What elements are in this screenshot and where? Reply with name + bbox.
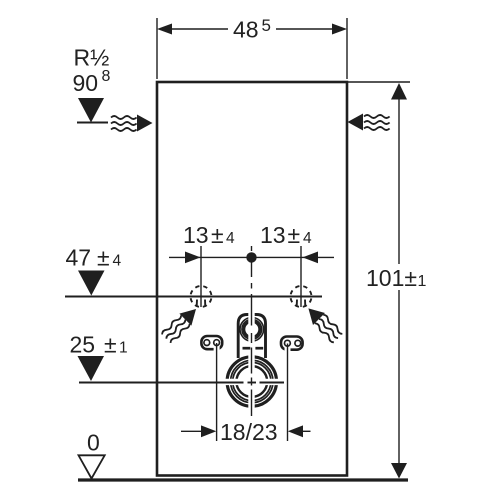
sleeve clamp marks <box>243 347 264 350</box>
water inflow arrow right (waves + arrow into panel) <box>348 114 390 131</box>
label 101 +/-1 <box>366 265 427 291</box>
dimension 48.5 extension line left <box>156 18 158 79</box>
dimension 101 line <box>398 99 400 465</box>
svg-text:25: 25 <box>70 332 96 358</box>
panel outline (monolith front view) <box>157 82 347 476</box>
drain centre line (vertical dash-dot) <box>251 262 253 416</box>
dimension 48.5 line <box>170 28 334 30</box>
svg-text:5: 5 <box>262 16 271 35</box>
label 47 +/-4 <box>66 245 122 271</box>
svg-text:4: 4 <box>303 230 312 247</box>
level 47 line <box>65 296 322 298</box>
dimension 101 extension line top <box>348 81 410 83</box>
dimension 101 arrowhead bottom <box>391 463 407 479</box>
dimension 13 center dot <box>246 252 256 262</box>
extension line 18/23 right <box>287 344 289 442</box>
dimension 48.5 extension line right <box>346 18 348 79</box>
dashed circle left (water connection) <box>191 286 212 307</box>
dimension 48.5 arrowhead left <box>157 24 172 35</box>
label 25 +/-1 <box>70 332 128 358</box>
label 13 +/-4 left <box>183 222 235 248</box>
dimension 101 arrowhead top <box>391 83 407 100</box>
svg-text:47: 47 <box>66 245 92 271</box>
floor line <box>78 478 408 481</box>
dimension 18/23 tail left <box>181 430 202 432</box>
svg-text:±: ± <box>104 332 117 358</box>
svg-text:13: 13 <box>183 222 209 248</box>
flow arrow lower-left (waves + arrow up-right) <box>160 303 202 345</box>
svg-text:±: ± <box>97 245 110 271</box>
bracket outlet clearance bands <box>217 347 288 353</box>
label 0 <box>87 430 100 456</box>
svg-text:0: 0 <box>87 430 100 456</box>
drain inlet sleeve (rounded top shape) <box>238 315 265 359</box>
floor level marker (open triangle) <box>79 455 105 478</box>
water inflow arrow left (waves + arrow into panel) <box>111 115 153 132</box>
extension line left water connection <box>200 246 202 307</box>
extension line 18/23 left <box>216 343 218 441</box>
water supply level marker (filled triangle) <box>78 98 104 123</box>
flow arrow lower-right (waves + arrow up-left) <box>302 302 344 344</box>
dimension 18/23 arrowhead left (pointing right) <box>201 425 216 437</box>
dimension 18/23 arrowhead right (pointing left) <box>288 425 303 437</box>
svg-text:±: ± <box>288 222 301 248</box>
svg-text:13: 13 <box>260 222 286 248</box>
svg-text:90: 90 <box>73 70 99 96</box>
dimension 13/13 line <box>169 256 334 258</box>
water supply level line <box>77 122 108 124</box>
label 48^5 <box>233 16 271 43</box>
dashed circle right (water connection) <box>291 286 312 307</box>
dimension 18/23 tail right <box>302 430 311 432</box>
svg-text:R½: R½ <box>74 45 110 71</box>
svg-text:4: 4 <box>226 230 235 247</box>
level 25 line (drain axis) <box>79 382 284 384</box>
extension line right water connection <box>300 246 302 307</box>
left fixing bracket <box>201 336 222 349</box>
svg-text:8: 8 <box>102 68 111 85</box>
svg-text:18/23: 18/23 <box>220 419 278 445</box>
label 18/23 <box>220 419 278 445</box>
drain flange rings (large circle) <box>227 357 276 406</box>
center tick above dot <box>251 246 253 251</box>
svg-text:1: 1 <box>119 340 128 357</box>
inlet connection rings <box>240 318 264 342</box>
dimension 48.5 arrowhead right <box>332 24 347 35</box>
level 47 marker (filled triangle) <box>78 271 105 296</box>
dimension 13 arrowhead right (pointing left) <box>303 252 319 264</box>
svg-text:4: 4 <box>113 253 122 270</box>
label 13 +/-4 right <box>260 222 312 248</box>
dimension 13 arrowhead left (pointing right) <box>185 252 201 264</box>
svg-text:±: ± <box>211 222 224 248</box>
centre line white clearance bands <box>224 311 285 411</box>
svg-text:1: 1 <box>418 273 427 290</box>
right fixing bracket <box>281 337 303 350</box>
label R1/2 90^8 <box>73 45 111 97</box>
svg-text:48: 48 <box>233 17 259 43</box>
svg-text:101±: 101± <box>366 265 417 291</box>
level 25 marker (filled triangle) <box>78 356 105 381</box>
